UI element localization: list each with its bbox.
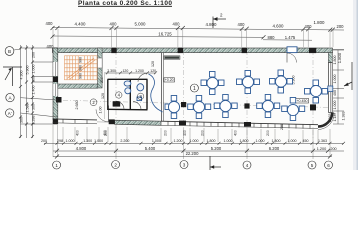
svg-text:5.200: 5.200 bbox=[211, 146, 222, 151]
svg-text:120: 120 bbox=[101, 93, 105, 99]
svg-text:300: 300 bbox=[20, 117, 24, 123]
svg-text:2.300: 2.300 bbox=[107, 69, 116, 73]
svg-text:450: 450 bbox=[303, 139, 309, 143]
top dim texts bbox=[46, 20, 345, 29]
svg-text:200: 200 bbox=[32, 52, 36, 58]
grid bubble A' bbox=[6, 109, 14, 117]
svg-text:5.900: 5.900 bbox=[26, 66, 30, 75]
WC fixtures blue bbox=[124, 81, 144, 101]
svg-text:1.300: 1.300 bbox=[83, 139, 92, 143]
svg-text:1: 1 bbox=[55, 163, 58, 168]
+0.20 level box bbox=[164, 78, 175, 82]
piers on bottom band bbox=[179, 121, 186, 126]
svg-text:2.680: 2.680 bbox=[75, 101, 79, 110]
svg-text:400: 400 bbox=[110, 22, 118, 27]
svg-text:1.000: 1.000 bbox=[66, 139, 75, 143]
svg-text:400: 400 bbox=[103, 130, 107, 136]
grid bubbles 1-6 bbox=[53, 161, 333, 170]
svg-text:300: 300 bbox=[32, 104, 36, 110]
chain1 ticks bbox=[44, 142, 345, 145]
chain ticks bottom bbox=[55, 149, 332, 159]
svg-text:120: 120 bbox=[151, 61, 155, 67]
svg-text:200: 200 bbox=[280, 124, 284, 130]
window marker on right wall (blue) bbox=[328, 86, 333, 92]
left wall piers bbox=[53, 77, 62, 125]
0.450 level box near corner bbox=[296, 98, 309, 103]
svg-text:4.600: 4.600 bbox=[273, 24, 285, 29]
svg-text:400: 400 bbox=[234, 130, 238, 136]
bottom dim chain 2 bbox=[53, 150, 344, 152]
svg-text:300: 300 bbox=[32, 76, 36, 82]
svg-text:1.200: 1.200 bbox=[174, 139, 183, 143]
svg-text:1.000: 1.000 bbox=[32, 65, 36, 74]
bathrooms block bbox=[108, 79, 148, 110]
svg-text:5.400: 5.400 bbox=[145, 146, 156, 151]
bottom extension lines bbox=[53, 125, 330, 159]
rounded corner bottom-right bbox=[318, 113, 332, 127]
row-A interior columns bbox=[181, 102, 186, 107]
scan edge right bbox=[353, 0, 357, 170]
svg-text:4: 4 bbox=[246, 163, 249, 168]
tables top row bbox=[201, 70, 328, 103]
entrance opening sill bbox=[97, 121, 109, 123]
svg-text:1.000: 1.000 bbox=[256, 139, 265, 143]
svg-text:200: 200 bbox=[266, 130, 270, 136]
svg-text:16.725: 16.725 bbox=[158, 32, 172, 37]
svg-text:900: 900 bbox=[79, 65, 83, 71]
mullion ticks bbox=[168, 121, 310, 129]
svg-text:1.137: 1.137 bbox=[333, 113, 337, 122]
svg-text:1.000: 1.000 bbox=[333, 101, 337, 110]
top dim ticks bbox=[51, 26, 335, 32]
bottom dim chain 3 (total) bbox=[53, 156, 332, 158]
svg-text:Planta cota 0.200 Sc. 1:100: Planta cota 0.200 Sc. 1:100 bbox=[78, 0, 172, 7]
svg-text:4.800: 4.800 bbox=[76, 146, 87, 151]
svg-text:900: 900 bbox=[79, 73, 83, 79]
svg-text:5.000: 5.000 bbox=[135, 22, 147, 27]
svg-text:1.200: 1.200 bbox=[135, 69, 144, 73]
bathroom doors bbox=[116, 101, 124, 109]
bottom wall: left window band bbox=[53, 119, 98, 124]
svg-text:2: 2 bbox=[114, 162, 117, 167]
svg-text:5: 5 bbox=[311, 163, 314, 168]
svg-text:1.000: 1.000 bbox=[224, 139, 233, 143]
grid bubble A bbox=[6, 93, 14, 101]
svg-text:1.200: 1.200 bbox=[317, 147, 327, 151]
section marker 1 (right) bbox=[344, 62, 352, 90]
svg-text:400: 400 bbox=[238, 22, 246, 27]
svg-text:1: 1 bbox=[193, 86, 196, 92]
svg-text:880: 880 bbox=[268, 35, 276, 40]
svg-text:900: 900 bbox=[79, 57, 83, 63]
bottom dim chain 1 (detailed) bbox=[44, 142, 344, 144]
top-right sub dims 880 1.475 bbox=[263, 39, 312, 41]
room labels 4 and 3 bbox=[116, 92, 122, 98]
svg-text:1.363: 1.363 bbox=[318, 139, 327, 143]
tables bottom row bbox=[165, 95, 305, 121]
svg-text:22.200: 22.200 bbox=[186, 151, 199, 156]
svg-text:1.800: 1.800 bbox=[314, 20, 326, 25]
svg-text:200: 200 bbox=[100, 77, 104, 83]
blue plumbing curve bbox=[149, 74, 163, 112]
svg-text:200: 200 bbox=[330, 147, 336, 151]
left dim chains bbox=[21, 45, 58, 138]
svg-text:B: B bbox=[8, 49, 11, 54]
section marker 2 (top) bbox=[213, 17, 226, 29]
svg-text:A': A' bbox=[8, 111, 12, 116]
svg-text:1.000: 1.000 bbox=[288, 139, 297, 143]
top wall hatched band bbox=[53, 48, 333, 53]
svg-text:120: 120 bbox=[122, 69, 128, 73]
stair (orange) bbox=[65, 56, 98, 80]
bathroom dim chain above (2.300 120 1.200 120) bbox=[104, 72, 156, 74]
svg-text:4.800: 4.800 bbox=[206, 22, 218, 27]
svg-text:1.475: 1.475 bbox=[285, 35, 296, 40]
dark shaft bbox=[113, 101, 120, 106]
top wall label box (grey) bbox=[164, 56, 180, 60]
right wall bbox=[328, 53, 332, 63]
chain1 vertical small texts bbox=[76, 130, 271, 136]
left wall window segments (white with centerline) bbox=[53, 62, 57, 76]
svg-text:1.288: 1.288 bbox=[32, 116, 36, 125]
svg-text:1.00: 1.00 bbox=[99, 107, 103, 114]
bottom curtain wall band (x 161-318) bbox=[161, 121, 318, 129]
door on top wall with swing bbox=[287, 47, 297, 53]
svg-text:400: 400 bbox=[333, 90, 337, 96]
datum symbol left bbox=[3, 67, 22, 86]
svg-text:200: 200 bbox=[201, 130, 205, 136]
grid dash-dot row A horizontal bbox=[53, 100, 332, 108]
pier right of entrance bbox=[109, 119, 115, 124]
interior partition x=162 bbox=[161, 53, 163, 122]
top wall piers (dark) bbox=[53, 48, 317, 53]
svg-text:1.383: 1.383 bbox=[342, 112, 346, 121]
entrance door leaf and swing bbox=[96, 109, 109, 122]
hatched bottom wall segment to partition bbox=[115, 120, 161, 125]
svg-text:1.000: 1.000 bbox=[333, 75, 337, 84]
svg-text:200: 200 bbox=[164, 130, 168, 136]
extension lines from top wall up to dim chains bbox=[53, 29, 333, 47]
top dimension chain 2 (16.725) bbox=[52, 36, 263, 37]
svg-text:400: 400 bbox=[76, 130, 80, 136]
room label 1 bbox=[190, 84, 198, 92]
svg-text:200: 200 bbox=[337, 24, 345, 29]
left wall band bbox=[53, 48, 58, 124]
grid bubble B bbox=[5, 47, 14, 56]
svg-text:2.200: 2.200 bbox=[120, 139, 129, 143]
svg-text:6: 6 bbox=[327, 163, 330, 168]
svg-text:1.000: 1.000 bbox=[190, 139, 199, 143]
svg-text:3: 3 bbox=[183, 162, 186, 167]
room label 2 bbox=[90, 99, 97, 106]
grid dash-dot vertical lines bbox=[116, 50, 313, 140]
svg-text:400: 400 bbox=[46, 21, 54, 26]
interior small dim texts (rotated) bbox=[75, 61, 296, 130]
shaft blob bbox=[113, 102, 120, 107]
svg-text:300: 300 bbox=[183, 130, 187, 136]
svg-text:4.300: 4.300 bbox=[20, 71, 24, 80]
svg-text:+0.450: +0.450 bbox=[296, 99, 307, 103]
svg-text:6.200: 6.200 bbox=[269, 146, 280, 151]
stair room walls bbox=[98, 48, 103, 88]
svg-text:400: 400 bbox=[173, 22, 181, 27]
svg-text:1.588: 1.588 bbox=[26, 104, 30, 113]
svg-text:+0.20: +0.20 bbox=[165, 78, 174, 82]
stair small dim texts bbox=[79, 57, 83, 79]
svg-text:1.400: 1.400 bbox=[32, 86, 36, 95]
svg-text:1.363: 1.363 bbox=[328, 114, 332, 123]
svg-text:1.800: 1.800 bbox=[333, 56, 337, 65]
top dimension chain 1 (y=28) bbox=[52, 28, 344, 31]
svg-text:1.000: 1.000 bbox=[152, 139, 161, 143]
section marker 2 (bottom) bbox=[210, 156, 221, 170]
svg-text:4.400: 4.400 bbox=[75, 22, 87, 27]
right dim chain bbox=[333, 50, 344, 124]
svg-text:400: 400 bbox=[305, 24, 313, 29]
